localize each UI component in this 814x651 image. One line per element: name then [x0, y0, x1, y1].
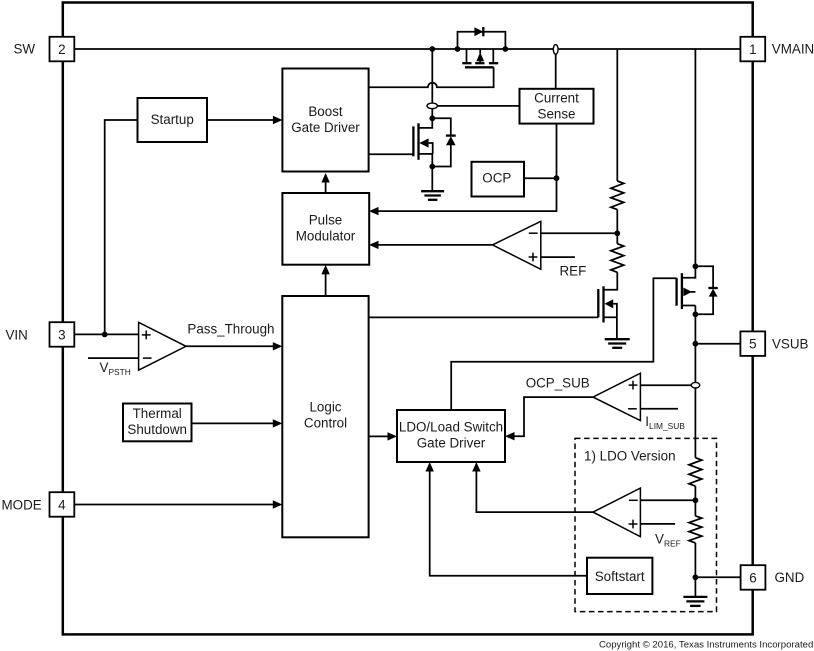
pin 3 VIN — [50, 322, 75, 347]
svg-text:Control: Control — [304, 415, 347, 430]
wire: Logic Control to Pulse Modulator — [325, 268, 327, 296]
svg-text:VMAIN: VMAIN — [772, 41, 814, 56]
wire: divider to LDO comp minus — [640, 499, 695, 501]
GND node — [693, 574, 699, 580]
svg-text:Copyright © 2016, Texas Instru: Copyright © 2016, Texas Instruments Inco… — [599, 640, 813, 651]
op-amp OCP_SUB comparator — [593, 373, 640, 420]
svg-text:OCP_SUB: OCP_SUB — [526, 376, 590, 391]
svg-text:Logic: Logic — [309, 399, 341, 414]
svg-text:Current: Current — [534, 91, 579, 106]
wire: rail to feedback divider — [616, 49, 618, 181]
transistor M3 feedback — [602, 286, 604, 322]
op-amp LDO error comparator — [593, 488, 640, 537]
wire: Startup to Boost Gate Driver — [207, 119, 275, 121]
svg-text:Boost: Boost — [308, 104, 343, 119]
svg-text:OCP: OCP — [482, 171, 511, 186]
wire: Softstart to driver — [430, 465, 587, 576]
wire: REF comparator to Pulse Modulator — [372, 244, 493, 246]
svg-text:2: 2 — [58, 42, 65, 57]
svg-text:1: 1 — [749, 42, 756, 57]
wire: rail to load switch — [694, 49, 696, 266]
wire: sense to OCP_SUB plus — [640, 384, 691, 386]
pin 5 VSUB — [740, 331, 765, 356]
wire: Pulse Modulator to Boost Gate Driver — [325, 177, 327, 194]
wire: OCP_SUB out to LDO driver — [508, 397, 593, 436]
transistor M1 boost switch — [458, 32, 506, 49]
svg-text:MODE: MODE — [2, 498, 42, 513]
svg-text:4: 4 — [58, 498, 66, 513]
pin 2 SW — [50, 37, 75, 62]
wire: Pass_Through to Logic Control — [186, 345, 276, 347]
wire: boost driver to M2 gate — [369, 153, 414, 155]
wire: boost driver to M1 gate (with hop) — [369, 67, 494, 87]
svg-text:GND: GND — [775, 570, 805, 585]
diode D1 — [474, 27, 483, 36]
svg-text:Gate Driver: Gate Driver — [291, 120, 360, 135]
wire: VREF stub — [640, 523, 675, 525]
block Softstart — [587, 558, 652, 594]
block Pulse Modulator — [282, 193, 369, 265]
svg-text:Modulator: Modulator — [296, 228, 356, 243]
svg-text:VREF: VREF — [655, 531, 681, 548]
svg-text:Shutdown: Shutdown — [127, 422, 187, 437]
wire: VSUB node — [694, 314, 696, 382]
wire: VIN to comparator — [75, 333, 139, 335]
ground (GND pin) — [683, 597, 707, 606]
svg-text:Softstart: Softstart — [595, 569, 645, 584]
ground (rectifier source) — [421, 191, 444, 200]
svg-text:Startup: Startup — [151, 112, 194, 127]
wire: MODE to Logic Control — [75, 504, 277, 506]
pin 6 GND — [741, 565, 766, 590]
current sense element on rail — [553, 45, 558, 55]
wire: Startup tap from VIN — [105, 120, 138, 334]
block OCP — [472, 162, 525, 197]
svg-text:LDO/Load Switch: LDO/Load Switch — [399, 419, 503, 434]
svg-text:Gate Driver: Gate Driver — [417, 435, 486, 450]
diode D2 — [446, 134, 456, 136]
diode D3 — [708, 287, 717, 289]
svg-text:5: 5 — [749, 337, 756, 352]
svg-text:SW: SW — [14, 41, 36, 56]
current sense element on VSUB — [691, 382, 699, 388]
svg-text:Thermal: Thermal — [133, 406, 182, 421]
block LDO/Load Switch Gate Driver — [397, 410, 505, 462]
resistor R4 — [689, 516, 702, 543]
wire: REF stub — [541, 256, 575, 258]
wire: Thermal Shutdown to Logic Control — [192, 422, 277, 424]
transistor M2 rectifier — [429, 115, 435, 121]
block Thermal Shutdown — [123, 404, 192, 442]
svg-text:REF: REF — [560, 263, 587, 278]
resistor R2 — [611, 244, 624, 273]
wire: branch sensor to Current Sense box — [437, 105, 519, 107]
current sense element on rectifier branch — [427, 103, 437, 109]
wire: VMAIN rail — [75, 48, 741, 50]
svg-text:VIN: VIN — [6, 328, 28, 343]
resistor R3 — [689, 458, 702, 486]
block Startup — [138, 98, 208, 142]
transistor M4 load switch — [693, 263, 699, 269]
svg-text:6: 6 — [749, 571, 756, 586]
wire: Current Sense / OCP to Pulse Modulator — [372, 124, 557, 212]
wire: rail sensor to Current Sense box — [555, 54, 557, 89]
wire: divider node to REF comp minus — [541, 232, 618, 234]
wire: VPSTH stub — [88, 357, 139, 359]
wire: load switch gate drive — [451, 278, 676, 410]
wire: LDO comp out to driver — [476, 465, 593, 512]
wire: OCP to node — [524, 177, 557, 179]
svg-text:Pulse: Pulse — [309, 212, 343, 227]
pin 1 VMAIN — [740, 37, 765, 62]
block Logic Control — [282, 296, 368, 537]
wire: ILIM_SUB stub — [640, 408, 678, 410]
wire: rail to rectifier — [431, 49, 433, 103]
svg-text:ILIM_SUB: ILIM_SUB — [645, 414, 685, 431]
op-amp pass-through comparator — [139, 322, 186, 370]
wire: Logic Control to M3 gate — [369, 316, 599, 318]
LDO Version dashed box — [575, 438, 717, 611]
svg-text:1) LDO Version: 1) LDO Version — [584, 448, 676, 463]
block Current Sense — [520, 89, 594, 124]
svg-text:Sense: Sense — [538, 106, 576, 121]
block Boost Gate Driver — [282, 69, 368, 172]
svg-text:3: 3 — [58, 328, 65, 343]
ground (M3 source) — [605, 339, 630, 348]
svg-text:VPSTH: VPSTH — [100, 360, 131, 377]
svg-text:VSUB: VSUB — [772, 336, 809, 351]
pin 4 MODE — [50, 492, 75, 517]
wire: Logic Control to LDO driver — [369, 435, 391, 437]
resistor R1 — [611, 181, 624, 210]
op-amp REF comparator — [493, 221, 541, 269]
svg-text:Pass_Through: Pass_Through — [187, 321, 274, 336]
